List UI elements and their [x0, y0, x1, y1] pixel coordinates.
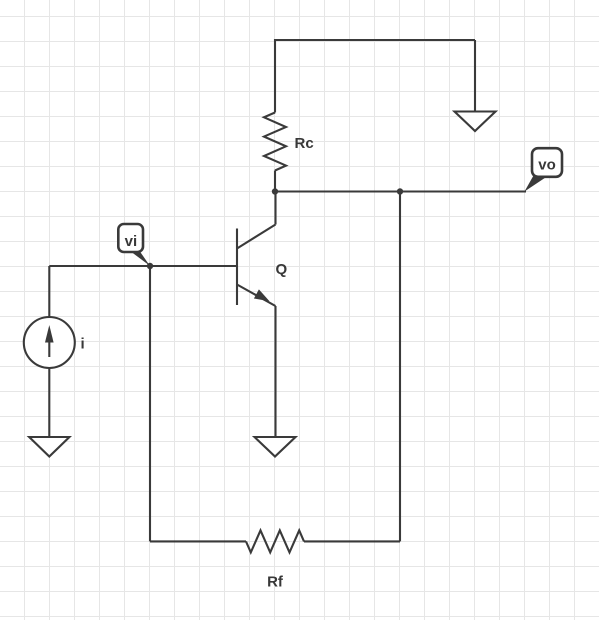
- svg-text:vi: vi: [125, 233, 138, 250]
- wire: Vcc drop to ground: [474, 40, 476, 112]
- wire: emitter lead: [274, 306, 276, 437]
- ground (source): [29, 437, 69, 457]
- wire: feedback left rise: [149, 266, 151, 541]
- ground (top right): [455, 112, 496, 132]
- wire: Rc top lead: [274, 39, 276, 113]
- node: input junction dot: [147, 263, 153, 269]
- node: feedback junction dot: [397, 188, 403, 194]
- resistor Rc: [264, 113, 286, 171]
- svg-text:i: i: [81, 335, 85, 352]
- wire: bottom rail left: [150, 540, 246, 542]
- wire: source bottom lead: [48, 368, 50, 437]
- wire: base wire: [49, 265, 237, 267]
- svg-text:Rf: Rf: [267, 573, 284, 590]
- wire: feedback right drop: [399, 192, 401, 542]
- svg-text:Q: Q: [276, 261, 288, 278]
- wire: bottom rail right: [304, 540, 400, 542]
- wire: top rail: [275, 39, 475, 41]
- ground (emitter): [255, 437, 296, 457]
- wire: collector lead: [274, 192, 276, 225]
- wire: output rail: [275, 190, 526, 192]
- current source I: [24, 317, 75, 368]
- wire: source top lead: [48, 266, 50, 317]
- wire: Rc bottom lead: [274, 171, 276, 192]
- svg-text:Rc: Rc: [295, 135, 314, 152]
- callout vi: [118, 224, 150, 266]
- transistor Q: [237, 225, 276, 307]
- callout vo: [525, 148, 563, 191]
- resistor Rf: [246, 530, 304, 552]
- svg-text:vo: vo: [538, 157, 556, 174]
- node: collector junction dot: [272, 188, 278, 194]
